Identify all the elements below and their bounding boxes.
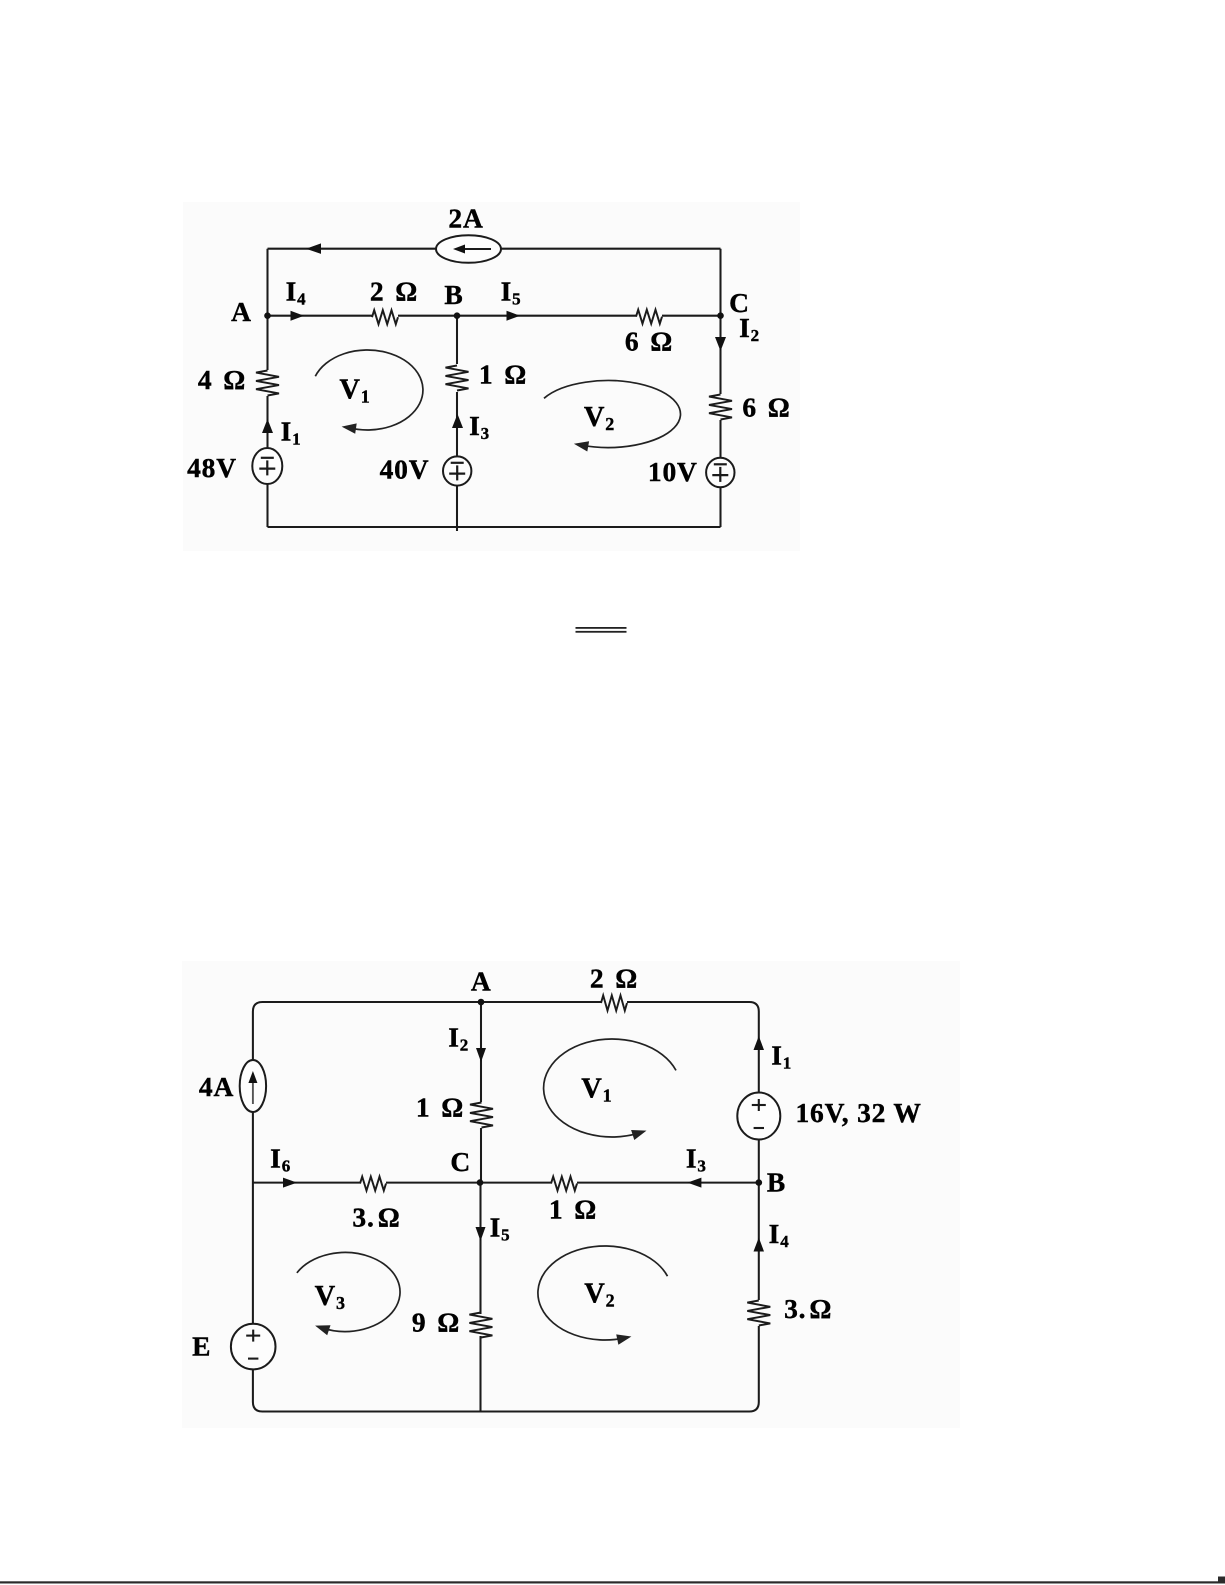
loop arrow V2 mesh 2 — [544, 381, 680, 448]
current arrow I1 up — [754, 1036, 765, 1050]
wire middle B to 6ohm — [398, 315, 636, 317]
wire left vertical lower — [266, 396, 268, 527]
svg-text:E: E — [192, 1330, 211, 1361]
wire right vertical lower — [719, 420, 721, 527]
source 16V circle — [737, 1093, 780, 1140]
wire left vertical — [252, 1012, 254, 1403]
wire top-left segment with rounded corner — [253, 1002, 481, 1012]
wire middle 1ohm to B — [577, 1182, 759, 1184]
wire right vertical lower — [758, 1326, 760, 1402]
figure 1: scanned image background — [183, 202, 800, 551]
svg-text:A: A — [471, 966, 492, 997]
current arrow I3 left — [687, 1178, 701, 1188]
svg-text:2 Ω: 2 Ω — [590, 963, 638, 994]
node C junction dot — [477, 1179, 484, 1186]
loop arrow V2 mesh 2 figure2 — [538, 1246, 668, 1340]
resistor R 2ohm between A and B — [372, 310, 398, 324]
svg-text:1 Ω: 1 Ω — [416, 1092, 464, 1123]
resistor R 6ohm between B and C — [636, 310, 662, 324]
wire middle left to 3ohm — [253, 1182, 360, 1184]
node B junction dot — [756, 1179, 763, 1186]
loop arrow V1 mesh 1 — [315, 350, 423, 430]
wire left vertical upper (A corner to node A) — [266, 249, 268, 370]
figure 2: scanned image background — [182, 961, 960, 1428]
page bottom rule — [0, 1581, 1225, 1583]
current arrow I4 right on middle wire — [291, 311, 305, 321]
svg-text:16V, 32 W: 16V, 32 W — [796, 1097, 922, 1128]
current source 4A ellipse — [240, 1060, 266, 1112]
wire A down to 1ohm — [480, 1002, 482, 1102]
current arrow I4 up — [754, 1238, 765, 1252]
resistor R 2ohm top — [601, 995, 627, 1010]
wire C down to 9ohm — [479, 1183, 481, 1314]
svg-text:1 Ω: 1 Ω — [479, 359, 527, 390]
wire middle horizontal A-B left part — [268, 315, 373, 317]
arrow on top wire pointing left — [306, 243, 321, 254]
wire 9ohm to bottom — [479, 1336, 481, 1412]
node A junction dot — [264, 312, 271, 319]
resistor R 3ohm middle left — [360, 1177, 386, 1191]
double underline mark — [576, 627, 627, 629]
svg-text:40V: 40V — [380, 453, 430, 484]
resistor R 3ohm right branch — [747, 1301, 770, 1326]
svg-text:4 Ω: 4 Ω — [198, 364, 246, 395]
svg-text:4A: 4A — [199, 1071, 234, 1102]
svg-text:3. Ω: 3. Ω — [352, 1202, 400, 1233]
svg-text:2 Ω: 2 Ω — [370, 276, 418, 307]
resistor R 1ohm branch B — [446, 366, 469, 391]
loop arrow V1 mesh 1 figure2 — [544, 1039, 676, 1137]
resistor R 4ohm left branch — [256, 371, 279, 396]
svg-text:1 Ω: 1 Ω — [549, 1194, 597, 1225]
svg-text:48V: 48V — [187, 452, 237, 483]
svg-text:6 Ω: 6 Ω — [742, 392, 790, 423]
resistor R 1ohm branch A-C — [470, 1103, 493, 1128]
svg-text:9 Ω: 9 Ω — [412, 1306, 460, 1337]
svg-text:A: A — [231, 296, 252, 327]
svg-text:3. Ω: 3. Ω — [784, 1293, 832, 1324]
loop arrow V3 mesh 3 figure2 — [297, 1253, 400, 1332]
node B junction dot — [454, 312, 461, 319]
node A junction dot — [478, 999, 485, 1006]
wire middle 3ohm to C — [386, 1182, 551, 1184]
wire right vertical upper C — [719, 249, 721, 394]
wire right vertical upper — [758, 1012, 760, 1301]
current arrow I5 right on middle wire — [507, 311, 521, 321]
wire 1ohm to node C — [480, 1128, 482, 1183]
resistor R 9ohm — [469, 1313, 492, 1338]
resistor R 1ohm middle right — [551, 1177, 577, 1191]
source V 48V circle — [252, 448, 282, 484]
svg-text:2A: 2A — [448, 203, 483, 234]
wire middle 6ohm to C — [662, 315, 721, 317]
wire bottom with rounded corners — [253, 1402, 759, 1412]
source E circle — [231, 1324, 276, 1370]
svg-text:10V: 10V — [648, 456, 698, 487]
wire 2ohm to top-right corner — [627, 1002, 759, 1012]
node C junction dot — [717, 312, 724, 319]
current arrow I2 down — [476, 1048, 486, 1062]
resistor R 6ohm right branch — [709, 395, 732, 420]
wire bottom (left to right) — [268, 526, 721, 528]
svg-text:B: B — [444, 279, 463, 310]
current arrow I5 down — [476, 1227, 486, 1241]
wire top node A to 2ohm — [481, 1001, 601, 1003]
wire top (A corner to C corner) — [268, 248, 721, 250]
svg-text:6 Ω: 6 Ω — [625, 326, 673, 357]
current arrow I3 up — [452, 414, 463, 428]
svg-text:B: B — [767, 1167, 786, 1198]
wire branch B vertical upper — [456, 316, 458, 364]
current arrow I1 up — [262, 419, 273, 433]
source V 40V circle — [443, 456, 471, 485]
svg-text:C: C — [450, 1146, 471, 1177]
wire branch B lower — [456, 392, 458, 531]
current arrow I6 right — [283, 1178, 297, 1188]
current source 2A ellipse on top wire — [436, 235, 501, 263]
source V 10V circle — [706, 458, 734, 488]
current arrow I2 down — [715, 337, 726, 351]
page bottom-right corner mark — [1218, 1577, 1225, 1584]
